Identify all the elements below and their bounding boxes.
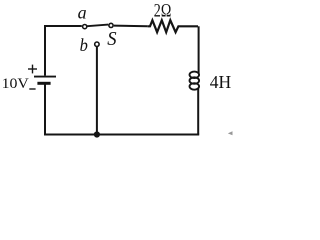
- svg-text:4H: 4H: [210, 72, 232, 92]
- svg-text:10V: 10V: [2, 77, 29, 92]
- svg-text:b: b: [80, 34, 89, 55]
- svg-text:S: S: [107, 28, 117, 50]
- svg-text:a: a: [78, 3, 87, 23]
- svg-text:2Ω: 2Ω: [154, 0, 172, 21]
